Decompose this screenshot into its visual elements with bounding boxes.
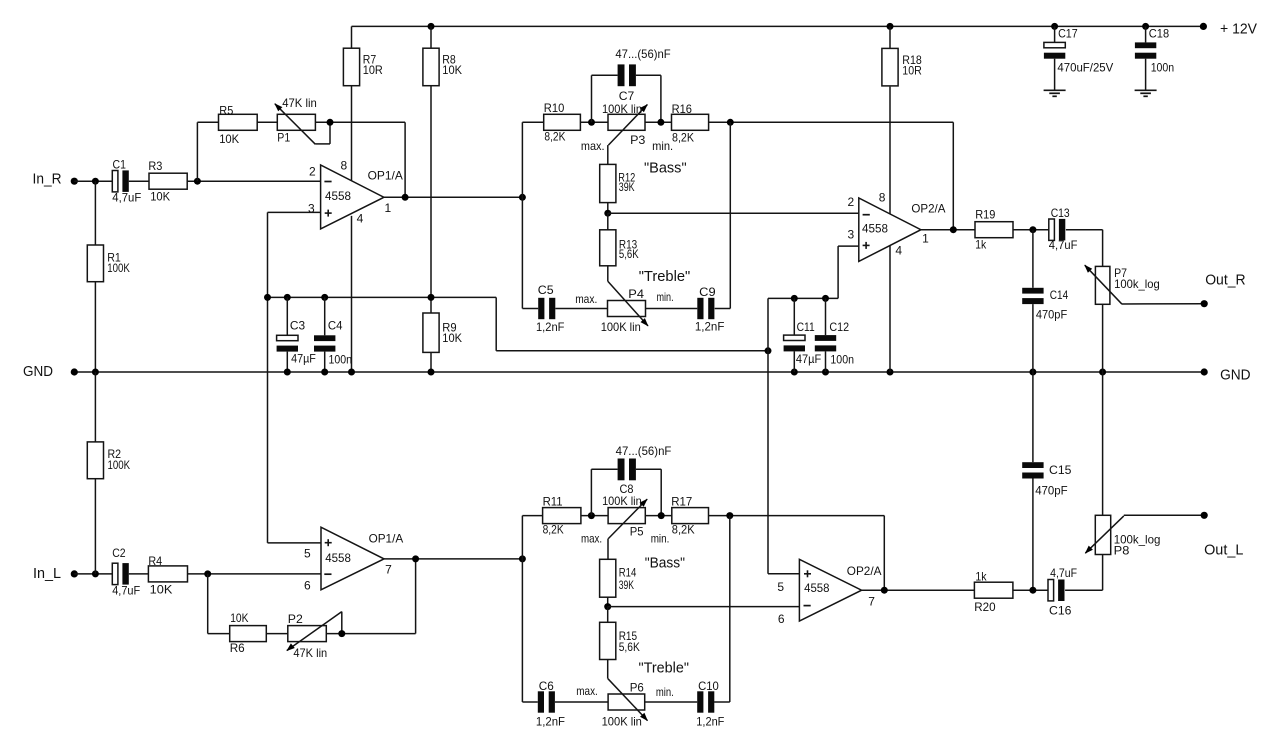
svg-text:100n: 100n: [830, 353, 854, 367]
junction R17 to tone rail right lower: [726, 512, 733, 519]
junction GND at C12: [822, 369, 829, 376]
wire OP2/A output: [921, 229, 975, 231]
svg-text:C11: C11: [797, 320, 815, 334]
svg-text:8: 8: [879, 190, 886, 204]
resistor R15 5,6K: [600, 607, 640, 679]
wire tone rail left lower: [522, 516, 542, 702]
svg-text:OP1/A: OP1/A: [368, 169, 403, 183]
junction rail at R8/R9 divider: [428, 294, 435, 301]
capacitor C2 4,7uF: [112, 546, 148, 597]
pin 7 label OP1/B: [385, 563, 392, 577]
svg-text:min.: min.: [651, 531, 670, 545]
svg-text:OP2/A: OP2/A: [847, 564, 882, 578]
svg-text:GND: GND: [23, 363, 53, 380]
svg-text:min.: min.: [652, 139, 673, 153]
svg-text:5: 5: [777, 580, 784, 594]
svg-text:R10: R10: [544, 101, 565, 115]
wire feedback OP2/B: [883, 516, 885, 591]
wire GND rail: [74, 371, 1204, 373]
junction rail to right bias column: [765, 347, 772, 354]
svg-text:3: 3: [308, 202, 315, 216]
svg-text:R11: R11: [543, 494, 563, 508]
potentiometer P6 100K lin: [602, 679, 648, 729]
svg-text:10K: 10K: [219, 132, 239, 146]
op-amp OP1/B 4558: [321, 527, 403, 590]
svg-text:max.: max.: [581, 531, 602, 545]
svg-text:5,6K: 5,6K: [619, 247, 639, 261]
svg-text:8,2K: 8,2K: [672, 131, 694, 145]
junction GND at C4: [321, 369, 328, 376]
svg-text:10K: 10K: [150, 583, 173, 597]
svg-text:C10: C10: [698, 679, 719, 693]
capacitor C8 47...(56)nF: [591, 444, 671, 516]
svg-text:4,7uF: 4,7uF: [1049, 238, 1078, 252]
junction rail at C3: [284, 294, 291, 301]
svg-text:10K: 10K: [442, 331, 462, 345]
svg-text:10R: 10R: [902, 63, 922, 77]
wire node A to OP2/A pin 2: [608, 212, 859, 214]
wire feedback OP2/A: [952, 122, 954, 229]
ground symbol under C18: [1135, 90, 1157, 96]
wire In_R to C1: [74, 180, 112, 182]
wire feedback riser at R3 node: [197, 122, 218, 181]
svg-text:C9: C9: [699, 285, 716, 299]
pin 3 label OP2/A: [848, 228, 855, 242]
svg-text:47K lin: 47K lin: [293, 646, 327, 660]
wire half-supply rail: [268, 297, 769, 350]
node GND terminal left: [23, 363, 78, 380]
junction P3/R16/C7 node: [657, 119, 664, 126]
svg-text:100n: 100n: [329, 352, 353, 366]
wire P1 wiper: [315, 122, 330, 144]
junction +12V at C17: [1051, 23, 1058, 30]
label Bass upper: [644, 160, 687, 177]
potentiometer wiper column R14 link: [607, 539, 609, 560]
junction GND at OP2 pin4: [887, 369, 894, 376]
svg-text:C13: C13: [1051, 206, 1070, 220]
svg-text:100K lin: 100K lin: [601, 320, 641, 334]
wire tone rail right upper: [715, 122, 731, 308]
wire P5 to R17: [645, 515, 672, 517]
label Treble upper: [639, 268, 691, 285]
svg-text:C17: C17: [1058, 26, 1078, 40]
svg-text:1: 1: [922, 232, 929, 246]
svg-text:1k: 1k: [975, 569, 987, 583]
svg-text:R3: R3: [148, 159, 162, 173]
svg-text:P5: P5: [630, 524, 644, 538]
svg-text:P3: P3: [630, 133, 646, 147]
wire P2 to feedback corner lower: [326, 633, 415, 635]
potentiometer P5 100K lin: [602, 494, 648, 538]
svg-text:max.: max.: [575, 292, 597, 306]
resistor R20 1k: [974, 569, 1048, 614]
wire OP2/A pin 4 to ground: [889, 246, 891, 372]
pin 2 label OP2/A: [848, 195, 855, 209]
resistor R11 8,2K: [543, 494, 609, 536]
svg-text:C18: C18: [1149, 26, 1170, 40]
wire P2 wiper: [341, 612, 343, 634]
resistor R6 10K: [230, 611, 288, 655]
resistor R8 10K: [423, 26, 462, 313]
label max P4: [575, 292, 597, 306]
resistor R5 10K: [219, 104, 278, 146]
svg-text:6: 6: [778, 612, 785, 626]
svg-text:"Treble": "Treble": [639, 268, 691, 285]
pin 1 label OP2/A: [922, 232, 929, 246]
capacitor C14 470pF: [1022, 230, 1068, 372]
svg-text:100K lin: 100K lin: [602, 494, 642, 508]
junction OP2/B output feedback: [881, 587, 888, 594]
junction R4 output node: [204, 570, 211, 577]
capacitor C18 100n: [1135, 26, 1174, 90]
svg-text:GND: GND: [1220, 367, 1251, 384]
junction GND at OP1 pin4: [348, 369, 355, 376]
junction R3 output node: [194, 178, 201, 185]
wire OP1/A pin 4 to ground: [351, 216, 353, 372]
wire OP1/A pin 3 stub: [268, 211, 321, 213]
junction GND at C14/C15: [1029, 369, 1036, 376]
pin 6 label OP2/B: [778, 612, 785, 626]
resistor R9 10K: [423, 313, 462, 372]
wire +12V supply rail: [352, 25, 1204, 27]
node B junction: [604, 603, 611, 610]
svg-text:Out_L: Out_L: [1204, 541, 1243, 558]
junction OP1/B output to tone rail: [519, 555, 526, 562]
svg-text:R4: R4: [148, 554, 162, 568]
pin 4 label OP1/A: [357, 211, 364, 225]
capacitor C13 4,7uF: [1049, 206, 1103, 252]
label min P4: [657, 290, 674, 304]
junction rail at C4: [321, 294, 328, 301]
svg-text:P6: P6: [630, 681, 644, 695]
svg-text:7: 7: [385, 563, 392, 577]
svg-text:4,7uF: 4,7uF: [112, 190, 141, 204]
potentiometer P1 47K lin: [274, 96, 317, 144]
junction P1 wiper node: [327, 119, 334, 126]
junction OP1/B output feedback: [412, 555, 419, 562]
resistor R1 100K: [87, 181, 130, 372]
junction R10/P3/C7 node: [588, 119, 595, 126]
wire OP2/B output: [862, 589, 975, 591]
svg-text:C5: C5: [538, 283, 554, 297]
wire OP1/B pin 5 stub: [268, 542, 322, 544]
label min P5: [651, 531, 670, 545]
label min P3: [652, 139, 673, 153]
resistor R4 10K: [148, 554, 321, 597]
svg-text:min.: min.: [657, 290, 674, 304]
svg-text:C1: C1: [113, 157, 127, 171]
junction GND at R1/R2: [92, 369, 99, 376]
resistor R18 10R: [882, 26, 922, 214]
svg-text:1,2nF: 1,2nF: [695, 320, 725, 334]
svg-text:In_R: In_R: [33, 170, 62, 187]
resistor R7 10R: [343, 26, 383, 180]
potentiometer P7 100k_log: [1084, 230, 1160, 516]
svg-text:min.: min.: [656, 685, 674, 699]
resistor R19 1k: [975, 207, 1049, 251]
svg-text:R6: R6: [230, 641, 245, 655]
junction GND at C11: [791, 369, 798, 376]
wire OP2/A pin 3 bias: [838, 246, 859, 298]
svg-text:1,2nF: 1,2nF: [696, 714, 724, 728]
capacitor C10 1,2nF: [645, 679, 725, 729]
pin 1 label OP1/A: [385, 201, 392, 215]
potentiometer P8 100k_log: [1085, 515, 1161, 590]
junction +12V at C18: [1142, 23, 1149, 30]
junction GND at R9: [428, 369, 435, 376]
svg-text:1k: 1k: [975, 238, 987, 252]
wire tone rail left upper: [522, 122, 543, 308]
junction +12V at R8: [428, 23, 435, 30]
junction R20 output at C15: [1029, 587, 1036, 594]
capacitor C15 470pF: [1022, 372, 1072, 590]
svg-text:4558: 4558: [862, 222, 888, 236]
svg-text:R5: R5: [219, 104, 233, 118]
wire OP2/B pin 5 stub: [768, 573, 799, 575]
svg-text:4: 4: [895, 244, 902, 258]
svg-text:100K lin: 100K lin: [602, 714, 642, 728]
svg-text:C6: C6: [539, 679, 554, 693]
svg-text:"Bass": "Bass": [644, 160, 687, 177]
capacitor C16 4,7uF: [1048, 566, 1103, 617]
svg-text:OP1/A: OP1/A: [369, 532, 404, 546]
junction bias row at C12: [822, 295, 829, 302]
capacitor C5 1,2nF: [536, 283, 608, 334]
resistor R3 10K: [148, 159, 320, 204]
potentiometer wiper column R12 link: [607, 145, 609, 164]
node Out_L terminal: [1201, 512, 1244, 559]
node In_R terminal: [33, 170, 78, 187]
wire R4 node down to R6: [208, 574, 230, 634]
svg-text:+ 12V: + 12V: [1220, 21, 1257, 38]
svg-text:3: 3: [848, 228, 855, 242]
svg-text:7: 7: [868, 595, 875, 609]
wire feedback down to OP1/A output: [404, 122, 406, 197]
wire P3 to R16: [645, 121, 672, 123]
junction P5/R17/C8 node: [658, 512, 665, 519]
svg-text:C12: C12: [829, 320, 849, 334]
svg-text:C7: C7: [619, 89, 635, 103]
svg-text:1: 1: [385, 201, 392, 215]
svg-text:R16: R16: [672, 102, 693, 116]
resistor R17 8,2K: [671, 494, 884, 536]
pin 2 label OP1/A: [309, 164, 316, 178]
svg-text:2: 2: [309, 164, 316, 178]
svg-text:4,7uF: 4,7uF: [112, 583, 140, 597]
svg-text:"Treble": "Treble": [639, 660, 690, 677]
wire P8 wiper to Out_L: [1124, 514, 1204, 516]
op-amp OP1/A 4558: [321, 165, 403, 229]
svg-text:8,2K: 8,2K: [544, 130, 565, 144]
node In_L terminal: [33, 565, 78, 582]
junction GND at P7/P8: [1099, 369, 1106, 376]
svg-text:10K: 10K: [230, 611, 248, 625]
svg-text:P2: P2: [288, 612, 303, 626]
junction OP1/A output feedback: [402, 194, 409, 201]
svg-text:4: 4: [357, 211, 364, 225]
svg-text:OP2/A: OP2/A: [911, 202, 945, 216]
svg-text:47µF: 47µF: [291, 352, 316, 366]
svg-text:47µF: 47µF: [796, 352, 821, 366]
svg-text:47...(56)nF: 47...(56)nF: [615, 47, 670, 61]
junction R19 output at C14: [1029, 226, 1036, 233]
svg-text:100k_log: 100k_log: [1114, 277, 1160, 291]
label max P5: [581, 531, 602, 545]
junction In_R at R1: [92, 178, 99, 185]
label max P6: [576, 684, 598, 698]
svg-text:10K: 10K: [150, 190, 170, 204]
junction bias row at C11: [791, 295, 798, 302]
svg-text:39K: 39K: [619, 180, 635, 194]
pin 7 label OP2/B: [868, 595, 875, 609]
capacitor C9 1,2nF: [646, 285, 725, 334]
svg-text:4558: 4558: [325, 551, 351, 565]
svg-text:R17: R17: [671, 494, 692, 508]
capacitor C1 4,7uF: [112, 157, 149, 204]
pin 5 label OP1/B: [304, 547, 311, 561]
potentiometer P2 47K lin: [286, 612, 342, 660]
node GND terminal right: [1201, 367, 1251, 384]
wire In_L to C2: [74, 573, 112, 575]
svg-text:P4: P4: [628, 287, 644, 301]
svg-text:C15: C15: [1049, 463, 1072, 477]
wire right bias row: [768, 297, 838, 299]
junction bias column to rail: [264, 294, 271, 301]
resistor R16 8,2K: [672, 102, 954, 145]
pin 8 label OP2/A: [879, 190, 886, 204]
svg-text:4558: 4558: [325, 189, 351, 203]
wire OP1/A output: [384, 196, 523, 198]
pin 3 label OP1/A: [308, 202, 315, 216]
svg-text:6: 6: [304, 579, 311, 593]
svg-text:C2: C2: [112, 546, 126, 560]
svg-text:470uF/25V: 470uF/25V: [1057, 61, 1113, 75]
svg-text:C3: C3: [290, 319, 306, 333]
svg-text:100K: 100K: [108, 458, 131, 472]
node Out_R terminal: [1201, 271, 1246, 307]
resistor R12 39K: [600, 164, 636, 213]
resistor R14 39K: [600, 559, 637, 606]
svg-text:8,2K: 8,2K: [672, 522, 695, 536]
svg-text:1,2nF: 1,2nF: [536, 320, 564, 334]
svg-text:max.: max.: [581, 139, 605, 153]
svg-text:10K: 10K: [442, 63, 462, 77]
svg-text:R19: R19: [975, 207, 995, 221]
ground symbol under C17: [1044, 90, 1066, 96]
wire right bias column: [767, 298, 769, 573]
resistor R2 100K: [87, 372, 130, 574]
node +12V terminal: [1200, 21, 1257, 38]
svg-text:P8: P8: [1114, 544, 1130, 558]
svg-text:C16: C16: [1049, 603, 1072, 617]
junction R16 to tone rail right: [727, 119, 734, 126]
junction GND at C3: [284, 369, 291, 376]
wire P1 to feedback corner: [315, 121, 405, 123]
op-amp OP2/A 4558: [859, 198, 946, 261]
capacitor C11 47uF: [784, 298, 822, 372]
svg-text:10R: 10R: [363, 63, 383, 77]
wire node B to OP2/B pin 6: [608, 606, 800, 608]
junction OP2/A output feedback: [950, 226, 957, 233]
potentiometer P4 100K lin: [601, 281, 649, 334]
svg-text:Out_R: Out_R: [1205, 271, 1246, 288]
resistor R13 5,6K: [600, 213, 639, 281]
pin 8 label OP1/A: [341, 158, 348, 172]
junction OP1/A output to tone rail: [519, 194, 526, 201]
potentiometer P3 100K lin: [602, 102, 648, 147]
junction R11/P5/C8 node: [588, 512, 595, 519]
capacitor C12 100n: [815, 298, 854, 372]
svg-text:5,6K: 5,6K: [619, 640, 640, 654]
wire feedback up to OP1/B output: [415, 559, 417, 634]
pin 5 label OP2/B: [777, 580, 784, 594]
node A junction: [604, 210, 611, 217]
wire tone rail right lower: [714, 516, 730, 702]
svg-text:470pF: 470pF: [1035, 484, 1068, 498]
svg-text:1,2nF: 1,2nF: [536, 714, 565, 728]
resistor R10 8,2K: [544, 101, 608, 144]
junction +12V at R18: [887, 23, 894, 30]
capacitor C17 470uF/25V: [1044, 26, 1113, 90]
op-amp OP2/B 4558: [799, 559, 881, 621]
svg-text:C14: C14: [1050, 288, 1069, 302]
svg-text:max.: max.: [576, 684, 598, 698]
svg-text:100n: 100n: [1151, 61, 1175, 75]
pin 4 label OP2/A: [895, 244, 902, 258]
svg-text:47...(56)nF: 47...(56)nF: [616, 444, 672, 458]
label min P6: [656, 685, 674, 699]
capacitor C6 1,2nF: [536, 679, 608, 729]
capacitor C4 100n: [314, 297, 352, 372]
svg-text:8,2K: 8,2K: [543, 522, 564, 536]
svg-text:8: 8: [341, 158, 348, 172]
svg-text:4558: 4558: [804, 581, 830, 595]
svg-text:39K: 39K: [619, 578, 634, 592]
svg-text:2: 2: [848, 195, 855, 209]
svg-text:P1: P1: [277, 130, 290, 144]
label Bass lower: [645, 554, 685, 571]
svg-text:100K: 100K: [107, 261, 130, 275]
label max P3: [581, 139, 605, 153]
wire OP1/B output: [384, 558, 522, 560]
pin 6 label OP1/B: [304, 579, 311, 593]
capacitor C3 47uF: [277, 297, 316, 372]
svg-text:100K lin: 100K lin: [602, 102, 642, 116]
capacitor C7 47...(56)nF: [592, 47, 671, 122]
svg-text:47K lin: 47K lin: [282, 96, 317, 110]
wire P7 wiper to Out_R: [1122, 303, 1204, 305]
svg-text:5: 5: [304, 547, 311, 561]
svg-text:470pF: 470pF: [1036, 307, 1067, 321]
svg-text:In_L: In_L: [33, 565, 61, 582]
wire bias column left: [267, 212, 269, 543]
svg-text:4,7uF: 4,7uF: [1050, 566, 1077, 580]
svg-text:C4: C4: [328, 319, 343, 333]
svg-text:"Bass": "Bass": [645, 554, 685, 571]
junction P2 wiper node: [338, 630, 345, 637]
svg-text:R20: R20: [974, 600, 996, 614]
junction In_L at R2: [92, 570, 99, 577]
label Treble lower: [639, 660, 690, 677]
